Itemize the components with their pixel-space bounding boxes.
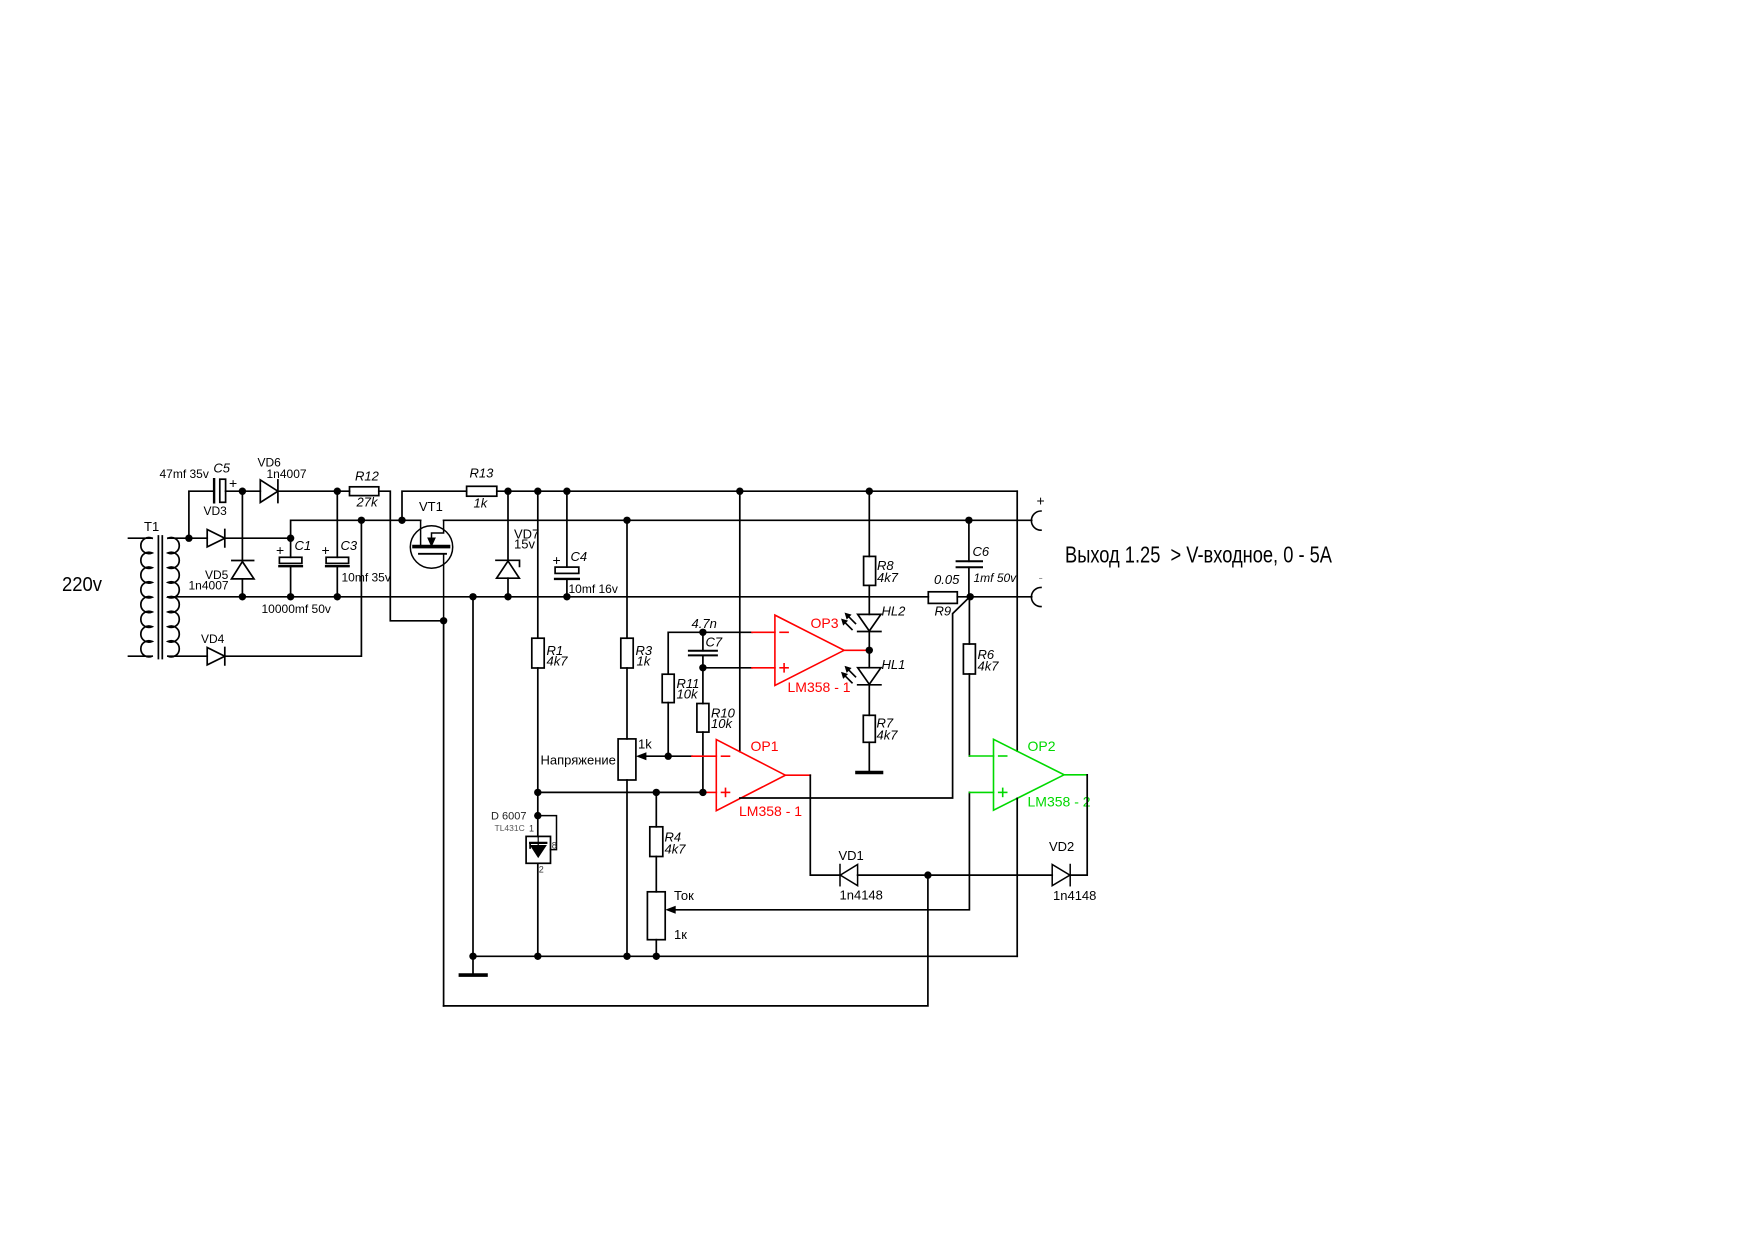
- svg-text:1n4148: 1n4148: [840, 888, 883, 903]
- wire secondary bottom lead to VD4: [168, 655, 207, 657]
- wire R4 to Ток pot: [655, 857, 657, 892]
- junction dots: [185, 488, 974, 961]
- wire top rail from R13 to right corner: [497, 490, 1017, 492]
- capacitor C1: [279, 538, 302, 597]
- plus output terminal: [1031, 511, 1041, 530]
- svg-text:C3: C3: [341, 538, 358, 553]
- svg-text:R13: R13: [470, 466, 495, 481]
- wire R3 bottom to potentiometer: [626, 668, 628, 739]
- wire HL2 to HL1 through OP3 output node: [868, 632, 870, 668]
- resistor R11 with top hook to C7 node: [668, 632, 703, 674]
- T1 primary winding: [129, 538, 153, 657]
- svg-text:VD2: VD2: [1049, 839, 1074, 854]
- node C7 bottom / R10 top: [699, 664, 706, 671]
- svg-text:OP1: OP1: [751, 738, 779, 754]
- transformer T1: [129, 536, 208, 659]
- svg-text:1к: 1к: [674, 927, 687, 942]
- wire ground branch from bottom rail: [472, 597, 474, 957]
- svg-text:+: +: [276, 542, 284, 558]
- svg-text:27k: 27k: [356, 495, 379, 510]
- node R4 top on plus reference wire: [653, 789, 660, 796]
- svg-text:C1: C1: [295, 538, 312, 553]
- node TL431 pin1 hook: [534, 812, 541, 819]
- svg-text:R9: R9: [935, 604, 952, 619]
- wire R8 to HL2: [868, 585, 870, 614]
- wire OP2 output down to VD2: [1070, 775, 1087, 875]
- svg-text:D 6007: D 6007: [491, 811, 526, 823]
- op-amp OP2 (LM358-2): [969, 739, 1087, 810]
- node TL431 anode on ground rail: [534, 953, 541, 960]
- node R12 loop to VT1 source: [440, 617, 447, 624]
- svg-text:+: +: [229, 475, 237, 491]
- wire TL431 anode to ground rail: [537, 863, 539, 956]
- wiper arrow of Напряжение pot: [636, 752, 647, 760]
- wire pot bottom to ground rail: [626, 780, 628, 956]
- wire VD3 to C1 node: [225, 537, 291, 539]
- node C1 bottom on bottom rail: [287, 593, 294, 600]
- node R8 top on top rail: [866, 488, 873, 495]
- svg-text:+: +: [553, 552, 561, 568]
- node Напряжение pot bottom on ground rail: [623, 953, 630, 960]
- wire VD6 to C3 node and R12: [278, 490, 350, 492]
- svg-text:1n4148: 1n4148: [1053, 888, 1096, 903]
- LED HL1: [858, 668, 881, 685]
- wire R1 bottom to TL431 node: [537, 668, 539, 836]
- wire gate line from C1 stub to VT1 gate: [291, 520, 421, 538]
- transistor VT1 (MOSFET): [410, 520, 452, 621]
- wire drain output line from VT1 to plus terminal: [444, 519, 1032, 521]
- svg-text:4.7n: 4.7n: [692, 616, 717, 631]
- node C3 bottom on bottom rail: [334, 593, 341, 600]
- op-amp OP1 (LM358-1): [692, 740, 810, 811]
- wire bottom rail from transformer tap to R9: [168, 596, 928, 598]
- svg-text:C4: C4: [571, 549, 588, 564]
- node ground rail left end: [469, 953, 476, 960]
- svg-text:10mf 16v: 10mf 16v: [569, 582, 618, 596]
- svg-text:LM358 - 1: LM358 - 1: [739, 803, 802, 819]
- potentiometer Напряжение 1k: [618, 739, 636, 780]
- svg-text:10k: 10k: [711, 716, 733, 731]
- diode VD3: [207, 530, 225, 547]
- svg-text:4k7: 4k7: [978, 659, 1000, 674]
- node VD7 bottom on bottom rail: [504, 593, 511, 600]
- svg-text:4k7: 4k7: [665, 842, 687, 857]
- ground symbol: [472, 956, 474, 975]
- svg-text:220v: 220v: [62, 574, 102, 596]
- svg-text:Выход 1.25 > V-входное, 0 - 5: Выход 1.25 > V-входное, 0 - 5А: [1065, 542, 1332, 568]
- node C7 top 4.7n: [699, 629, 706, 636]
- svg-text:C6: C6: [973, 544, 990, 559]
- node R11 bottom on OP1 minus wire: [665, 753, 672, 760]
- svg-text:LM358 - 1: LM358 - 1: [788, 679, 851, 695]
- svg-text:Ток: Ток: [674, 888, 694, 903]
- wire C7 node from top rail (OP1 V+ branch): [739, 491, 741, 751]
- svg-text:OP2: OP2: [1028, 738, 1056, 754]
- resistor R6: [968, 597, 970, 644]
- wire OP1 V- pin to sense node: [740, 596, 970, 798]
- wire top rail corner down to OP2 V+ pin: [1016, 491, 1018, 751]
- resistor R9: [928, 592, 957, 604]
- svg-text:4k7: 4k7: [877, 728, 899, 743]
- ground under R7: [857, 771, 882, 775]
- wire R13 left stub down to gate line: [402, 491, 467, 520]
- wire R11 bottom to OP1 minus line: [667, 703, 669, 757]
- LED HL2: [858, 614, 881, 631]
- svg-text:+: +: [322, 542, 330, 558]
- wire VD4 cathode to gate line: [225, 520, 362, 656]
- wire HL1 to R7: [868, 685, 870, 716]
- svg-text:15v: 15v: [514, 537, 535, 552]
- svg-text:Напряжение: Напряжение: [541, 753, 616, 768]
- resistor R8: [864, 556, 876, 585]
- svg-text:1n4007: 1n4007: [267, 467, 307, 481]
- svg-text:1mf 50v: 1mf 50v: [974, 571, 1018, 585]
- svg-text:4k7: 4k7: [877, 570, 899, 585]
- wire TL431 hook pin1 to pin8: [538, 816, 557, 850]
- resistor R12: [350, 487, 379, 496]
- IC D6007 TL431C: [526, 836, 550, 863]
- svg-text:VD1: VD1: [839, 848, 864, 863]
- wire R6 bottom to OP2 minus input: [968, 674, 970, 756]
- diode VD5: [232, 491, 255, 597]
- node C4 bottom on bottom rail: [563, 593, 570, 600]
- svg-text:1k: 1k: [638, 737, 652, 752]
- resistor R7: [863, 715, 875, 742]
- svg-text:1: 1: [529, 824, 534, 834]
- node C6 top on drain line: [965, 517, 972, 524]
- svg-text:0.05: 0.05: [934, 572, 960, 587]
- svg-text:+: +: [1037, 493, 1045, 509]
- wire R7 to ground: [868, 742, 870, 772]
- wire wiper to OP1 minus input: [644, 755, 692, 757]
- node R1 top on top rail: [534, 488, 541, 495]
- svg-text:1k: 1k: [474, 496, 489, 511]
- minus output terminal: [1031, 587, 1041, 606]
- capacitor C3: [326, 491, 349, 597]
- svg-text:1n4007: 1n4007: [189, 579, 229, 593]
- resistor R4: [655, 792, 657, 826]
- svg-text:HL2: HL2: [882, 604, 907, 619]
- svg-text:8: 8: [552, 841, 557, 851]
- wire VT1 source down to bottom loop: [443, 621, 445, 1006]
- wire C7 node to OP3 minus input: [703, 631, 752, 633]
- wire Ток wiper to OP2 plus input: [674, 792, 970, 909]
- node OP1 V+ branch on top rail: [736, 488, 743, 495]
- svg-text:10mf 35v: 10mf 35v: [342, 571, 391, 585]
- node VD7 top on top rail: [504, 488, 511, 495]
- wire OP2 V- pin down to ground rail: [1016, 798, 1018, 956]
- wire OP1 plus reference line: [538, 791, 703, 793]
- capacitor C6: [957, 520, 982, 597]
- svg-text:VD4: VD4: [201, 632, 225, 646]
- wire VD1 node down to bottom loop back to VT1 source: [444, 875, 928, 1006]
- svg-text:C5: C5: [213, 461, 230, 476]
- node Ток pot bottom on ground rail: [653, 953, 660, 960]
- svg-text:C7: C7: [706, 635, 723, 650]
- wire secondary top lead: [168, 537, 207, 539]
- potentiometer Ток 1к: [647, 892, 665, 940]
- capacitor C5: [214, 479, 242, 502]
- diode VD2: [1052, 865, 1070, 886]
- LED arrows of HL1: [842, 666, 856, 683]
- wire ground rail: [473, 955, 1017, 957]
- svg-text:R12: R12: [355, 469, 380, 484]
- svg-text:10k: 10k: [677, 687, 699, 702]
- node VD4 branch on gate line: [358, 517, 365, 524]
- node R1/TL431 on plus reference wire: [534, 789, 541, 796]
- wire OP3 plus node: [703, 667, 752, 669]
- wire stub from secondary top up to C5 line: [189, 491, 214, 538]
- wire bottom rail from R9 to minus terminal: [957, 596, 1031, 598]
- diode VD6: [260, 480, 278, 503]
- svg-text:10000mf 50v: 10000mf 50v: [262, 602, 331, 616]
- diode VD4: [207, 648, 225, 665]
- svg-text:4k7: 4k7: [547, 654, 569, 669]
- node ground branch on bottom rail: [469, 593, 476, 600]
- svg-text:LM358 - 2: LM358 - 2: [1028, 794, 1091, 810]
- node C4 top on top rail: [563, 488, 570, 495]
- node R3 top on drain line: [623, 517, 630, 524]
- svg-text:VD3: VD3: [204, 504, 228, 518]
- svg-text:HL1: HL1: [882, 657, 906, 672]
- LED arrows of HL2: [842, 613, 856, 630]
- diode VD1: [840, 865, 858, 886]
- capacitor C4: [555, 491, 579, 597]
- node secondary top / C5 stub: [185, 535, 192, 542]
- resistor R13: [467, 486, 497, 496]
- svg-text:1k: 1k: [637, 654, 652, 669]
- node OP3 output to LED chain: [866, 647, 873, 654]
- resistor R1 with long leads: [537, 491, 539, 638]
- node VD1 anode to bottom loop: [924, 871, 931, 878]
- wiper arrow of Ток pot: [665, 906, 676, 914]
- svg-text:-: -: [1039, 570, 1043, 585]
- svg-text:2: 2: [539, 865, 544, 875]
- T1 core: [158, 536, 162, 659]
- wire R10 bottom to OP1 plus line: [702, 732, 704, 792]
- capacitor C7: [689, 632, 717, 668]
- op-amp OP3 (LM358-1): [752, 615, 869, 685]
- resistor R10: [702, 668, 704, 704]
- wire R12 right down-loop to VT1 source node: [379, 491, 444, 621]
- node C1 top: [287, 535, 294, 542]
- T1 secondary winding: [168, 538, 179, 657]
- wire C5 to VD6: [242, 490, 260, 492]
- wire VD1 anode to VD2 anode: [858, 874, 1053, 876]
- node R9/C6/R6 sense junction: [967, 593, 974, 600]
- svg-text:47mf 35v: 47mf 35v: [160, 467, 209, 481]
- wire HL column from top rail: [868, 491, 870, 556]
- node VD5 top on C5 wire: [239, 488, 246, 495]
- svg-text:TL431C: TL431C: [495, 823, 525, 833]
- wire OP1 output down to VD1: [810, 775, 840, 875]
- svg-text:OP3: OP3: [811, 615, 839, 631]
- svg-text:T1: T1: [144, 519, 159, 534]
- resistor R3 with top lead from drain line: [626, 520, 628, 638]
- svg-text:VT1: VT1: [419, 499, 443, 514]
- zener VD7: [496, 491, 520, 597]
- node VD5 bottom on bottom rail: [239, 593, 246, 600]
- node R13 stub on gate line: [398, 517, 405, 524]
- wire Ток pot bottom to ground rail: [655, 940, 657, 957]
- node R10 bottom on plus reference wire: [699, 789, 706, 796]
- node C3 top on top rail: [334, 488, 341, 495]
